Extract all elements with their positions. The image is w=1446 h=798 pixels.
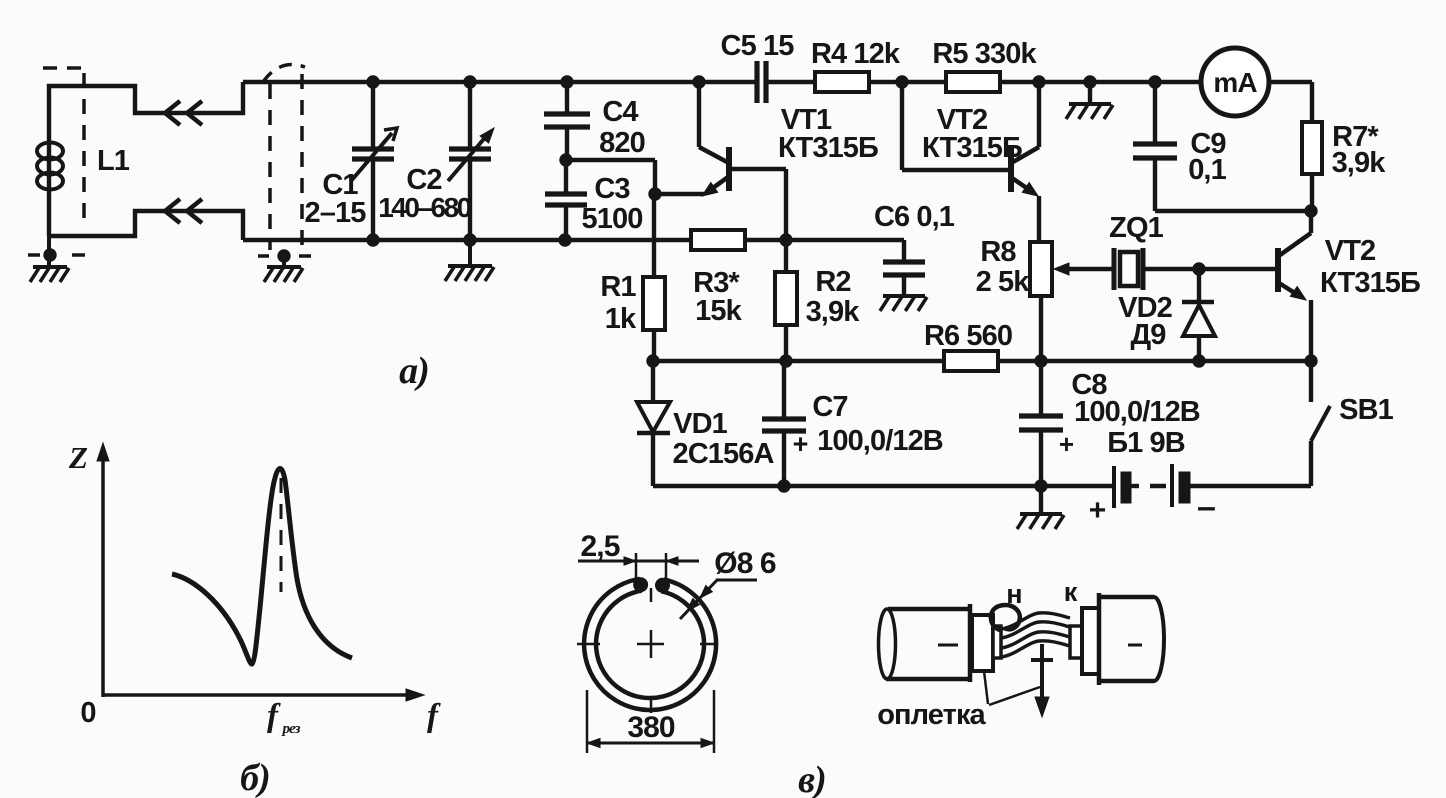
label v): [798, 759, 826, 798]
capacitor C4: [544, 82, 645, 160]
ring center marks: [577, 588, 716, 713]
coil L1 frame wire: [49, 82, 243, 240]
transistor VT1: [655, 82, 878, 240]
capacitor C5: [721, 30, 795, 103]
switch SB1: [1311, 361, 1394, 486]
svg-text:100,0/12В: 100,0/12В: [817, 425, 943, 457]
graph dashed line at f rez: [280, 478, 283, 592]
crystal ZQ1: [1054, 212, 1276, 290]
svg-text:б): б): [240, 757, 270, 798]
svg-text:КТ315Б: КТ315Б: [922, 132, 1022, 164]
inductor L1: [37, 143, 130, 190]
svg-text:0,1: 0,1: [1188, 154, 1226, 186]
svg-text:Б1 9В: Б1 9В: [1107, 427, 1185, 459]
svg-text:3,9k: 3,9k: [806, 296, 861, 328]
resistor R2: [775, 240, 860, 361]
svg-text:в): в): [798, 759, 826, 798]
resistor R4: [811, 38, 901, 92]
shield screen of tank (dashed): [258, 65, 311, 256]
svg-text:+: +: [793, 429, 808, 459]
ground at C2: [445, 240, 494, 281]
capacitor C7: [762, 361, 943, 486]
svg-text:5100: 5100: [582, 203, 643, 235]
ground at shield: [264, 250, 303, 282]
coupling arrows top: [165, 101, 202, 125]
svg-text:380: 380: [627, 711, 675, 744]
svg-text:C7: C7: [812, 391, 847, 423]
resistor R6: [924, 320, 1012, 371]
svg-text:КТ315Б: КТ315Б: [778, 132, 878, 164]
graph axis Z: [68, 440, 441, 737]
wire tank bottom bus: [243, 238, 786, 242]
capacitor C6: [786, 201, 955, 296]
svg-text:рез: рез: [280, 721, 300, 737]
node top bus junctions: [367, 76, 1161, 88]
ring loop (coax) outer: [584, 578, 716, 710]
svg-text:0: 0: [80, 697, 95, 729]
svg-text:140–680: 140–680: [378, 192, 471, 223]
svg-text:КТ315Б: КТ315Б: [1320, 267, 1420, 299]
svg-text:ZQ1: ZQ1: [1109, 212, 1163, 244]
svg-text:Д9: Д9: [1131, 319, 1167, 351]
capacitor C2 (variable): [378, 82, 494, 240]
svg-text:C6 0,1: C6 0,1: [874, 201, 955, 233]
svg-text:SB1: SB1: [1339, 394, 1393, 426]
svg-text:Ø8 6: Ø8 6: [714, 547, 776, 580]
cable left braid: [972, 615, 993, 671]
svg-text:R5 330k: R5 330k: [932, 38, 1037, 70]
node C3-C4 tap: [560, 154, 661, 200]
svg-text:1k: 1k: [605, 303, 637, 335]
node middle bus junctions: [647, 355, 1317, 367]
svg-text:C5 15: C5 15: [721, 30, 795, 62]
capacitor C8: [1019, 361, 1200, 486]
svg-text:2 5k: 2 5k: [976, 266, 1031, 298]
svg-text:+: +: [1089, 494, 1106, 527]
transistor VT2: [902, 82, 1039, 242]
svg-text:–: –: [1197, 488, 1215, 526]
svg-text:R1: R1: [600, 271, 636, 303]
center lead arrow: [1031, 644, 1053, 717]
wire middle bus: [653, 359, 1311, 363]
svg-text:2,5: 2,5: [580, 530, 619, 563]
wire top bus: [243, 80, 1312, 84]
svg-text:L1: L1: [97, 145, 130, 177]
label b): [240, 757, 270, 798]
svg-text:3,9k: 3,9k: [1332, 147, 1387, 179]
ground at C8: [1017, 486, 1064, 529]
ground at L1: [30, 236, 69, 282]
resistor R1: [600, 194, 665, 361]
svg-text:н: н: [1006, 579, 1021, 609]
resistor R7*: [1302, 82, 1386, 217]
inner wires: [1001, 613, 1070, 657]
potentiometer R8: [976, 236, 1052, 361]
svg-text:R8: R8: [980, 236, 1016, 268]
diode VD2: [1118, 263, 1215, 361]
braid leader lines: [877, 671, 1040, 731]
cable right braid: [1082, 608, 1099, 674]
svg-text:оплетка: оплетка: [877, 699, 986, 731]
transistor VT2 right: [1278, 211, 1420, 361]
svg-text:Z: Z: [68, 440, 88, 475]
svg-text:R4 12k: R4 12k: [811, 38, 901, 70]
dimension 380: [587, 690, 714, 753]
diode VD1 zener: [637, 361, 774, 486]
svg-text:2C156A: 2C156A: [673, 438, 775, 470]
dimension 2,5: [578, 530, 699, 581]
svg-text:mA: mA: [1213, 67, 1257, 98]
ground at C6: [880, 296, 927, 311]
svg-text:VD1: VD1: [673, 408, 727, 440]
node bottom bus junctions: [778, 480, 1047, 492]
cable left collar: [993, 626, 1001, 658]
svg-text:15k: 15k: [695, 295, 742, 327]
svg-text:100,0/12В: 100,0/12В: [1074, 396, 1200, 428]
capacitor C1 (variable): [305, 82, 397, 240]
cable right collar: [1070, 626, 1082, 658]
battery B1 9V: [1089, 427, 1215, 527]
cable left body: [879, 604, 971, 682]
coupling arrows bottom: [165, 199, 202, 223]
svg-text:к: к: [1064, 577, 1078, 607]
capacitor C9: [1133, 82, 1311, 211]
capacitor C3: [545, 160, 642, 240]
svg-text:2–15: 2–15: [305, 197, 367, 229]
node tank bus junctions: [367, 234, 792, 246]
dimension diameter 8,6: [680, 547, 776, 619]
svg-text:C3: C3: [594, 173, 630, 205]
graph resonance curve: [172, 469, 352, 665]
resistor R5: [932, 38, 1037, 92]
resistor R3*: [691, 230, 745, 327]
meter PA1 mA: [1201, 48, 1269, 116]
svg-text:C4: C4: [602, 96, 638, 128]
shield screen of L1 (dashed): [28, 68, 85, 255]
ground right of R5: [1066, 82, 1113, 119]
svg-text:VT2: VT2: [1325, 235, 1376, 267]
svg-text:а): а): [399, 350, 429, 392]
svg-text:+: +: [1059, 429, 1074, 459]
svg-text:820: 820: [599, 127, 645, 159]
label a): [399, 350, 429, 392]
svg-text:R2: R2: [815, 266, 850, 298]
cable right body: [1064, 577, 1164, 685]
braid pigtail loop n: [991, 579, 1022, 630]
svg-text:R6 560: R6 560: [924, 320, 1012, 352]
wire bottom bus: [653, 484, 1311, 488]
